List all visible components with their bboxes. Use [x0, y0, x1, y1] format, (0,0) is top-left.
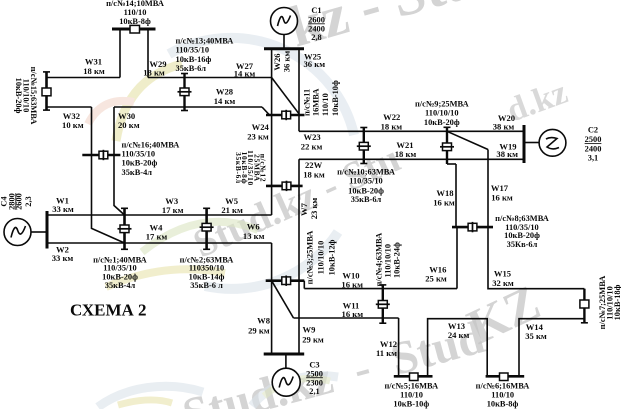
svg-text:36 км: 36 км	[304, 59, 326, 69]
svg-text:35кВ-6л: 35кВ-6л	[351, 195, 382, 204]
label W8	[248, 316, 271, 336]
transformer п/с№3	[282, 276, 291, 286]
transformer п/с№6	[500, 373, 509, 381]
label W22	[381, 112, 403, 131]
label W18	[433, 188, 455, 207]
svg-text:W8: W8	[257, 316, 271, 326]
watermark Stud.kz center	[186, 135, 406, 266]
svg-text:W9: W9	[303, 325, 316, 335]
text п/с№15 rotated	[14, 67, 38, 125]
svg-text:2400: 2400	[585, 145, 602, 154]
wire W13	[428, 319, 488, 377]
wire п/с№14 left drop	[119, 29, 121, 78]
svg-text:16 км: 16 км	[491, 193, 513, 203]
wire W18 vertical	[455, 164, 457, 227]
label W20	[493, 113, 515, 132]
label W12	[376, 339, 397, 358]
svg-text:10кВ-10ф: 10кВ-10ф	[331, 80, 340, 116]
bus C2	[523, 125, 526, 163]
label W32	[62, 111, 84, 130]
svg-text:18 км: 18 км	[381, 121, 403, 131]
bus п/с№10	[360, 128, 367, 164]
svg-text:35 км: 35 км	[525, 331, 547, 341]
text C4 rotated	[0, 193, 33, 210]
svg-text:23 км: 23 км	[247, 132, 269, 142]
svg-text:2500: 2500	[585, 135, 602, 144]
wire W23-W22-W20 rail	[299, 130, 525, 132]
svg-text:СХЕМА 2: СХЕМА 2	[70, 301, 147, 320]
svg-text:24 км: 24 км	[448, 330, 470, 340]
svg-text:10кВ-14ф: 10кВ-14ф	[189, 273, 225, 282]
svg-text:35Кв-6л: 35Кв-6л	[507, 240, 538, 249]
label W23	[301, 132, 323, 152]
svg-text:10кВ-8ф: 10кВ-8ф	[487, 400, 519, 409]
text п/с№2	[180, 255, 234, 290]
text п/с№4 rotated	[375, 233, 402, 287]
svg-text:W24: W24	[252, 122, 270, 132]
svg-text:11 км: 11 км	[376, 348, 397, 358]
bus п/с№8	[452, 226, 493, 229]
svg-text:п/с№5;16МВА: п/с№5;16МВА	[384, 381, 438, 390]
label W2	[52, 245, 74, 264]
logo swirl large	[88, 38, 354, 289]
wire W18 jog	[447, 163, 456, 165]
label W15	[492, 269, 514, 288]
text п/с№3 rotated	[306, 231, 337, 285]
title СХЕМА 2	[70, 301, 147, 320]
svg-text:10кВ-20ф: 10кВ-20ф	[122, 159, 158, 168]
label W24	[247, 122, 269, 142]
label W31	[83, 57, 105, 76]
svg-text:10кВ-8ф: 10кВ-8ф	[119, 17, 151, 26]
wire W30 drop + diagonal to п/с№1	[114, 107, 125, 215]
transformer п/с№5	[410, 373, 419, 381]
svg-text:36 км: 36 км	[282, 51, 292, 73]
svg-text:16 км: 16 км	[341, 279, 363, 289]
label W1	[52, 196, 74, 214]
label W21	[395, 140, 417, 159]
text п/с№16	[122, 140, 180, 177]
bus п/с№7	[581, 289, 588, 323]
wire W29-W27	[148, 77, 272, 79]
label W14	[525, 322, 547, 341]
svg-text:110/10: 110/10	[321, 93, 330, 116]
wire W16 vertical	[456, 227, 458, 289]
text п/с№10	[337, 168, 395, 204]
svg-text:35кВ-6 л: 35кВ-6 л	[190, 281, 223, 290]
label W28	[214, 87, 236, 107]
svg-text:10кВ-24ф: 10кВ-24ф	[393, 242, 402, 278]
text C1	[308, 6, 325, 42]
label W4	[146, 223, 168, 242]
svg-text:110/35/10: 110/35/10	[176, 46, 210, 55]
svg-text:п/с№4;63МВА: п/с№4;63МВА	[375, 233, 384, 287]
svg-text:2500: 2500	[306, 369, 323, 378]
label W13	[448, 321, 470, 340]
text п/с№6	[476, 381, 530, 408]
svg-text:п/с№3;25МВА: п/с№3;25МВА	[306, 231, 315, 285]
svg-text:W28: W28	[216, 87, 234, 97]
label W19	[496, 142, 518, 160]
transformer п/с№9	[440, 143, 454, 151]
label W5	[221, 196, 243, 215]
svg-text:10кВ-10ф: 10кВ-10ф	[393, 400, 429, 409]
svg-text:35кВ-4л: 35кВ-4л	[105, 281, 136, 290]
wire W25 vertical	[298, 49, 300, 132]
bus п/с№3	[266, 279, 305, 282]
svg-text:W26: W26	[272, 53, 282, 71]
wire п/с№3 diagonal to W11	[272, 281, 294, 318]
svg-text:п/с№11: п/с№11	[302, 89, 311, 116]
text п/с№5	[384, 381, 438, 408]
transformer п/с№1	[118, 225, 132, 233]
transformer п/с№15	[42, 88, 51, 96]
text п/с№1	[93, 255, 147, 290]
wire W12 vertical	[398, 318, 400, 376]
bus п/с№1	[121, 208, 128, 249]
svg-text:110/10/10: 110/10/10	[425, 109, 459, 118]
svg-text:2600: 2600	[14, 193, 23, 210]
bus п/с№11	[266, 114, 305, 117]
text C2	[585, 125, 602, 162]
svg-text:W23: W23	[304, 132, 321, 142]
svg-text:10кВ-20ф: 10кВ-20ф	[504, 231, 540, 240]
watermark Stud.kz bottom	[177, 311, 489, 409]
wire W8 vertical	[271, 243, 273, 354]
svg-text:п/с№16;40МВА: п/с№16;40МВА	[122, 140, 180, 149]
svg-text:20 км: 20 км	[118, 120, 140, 130]
wire W28 jog diagonal to п/с№11 bus	[262, 107, 270, 115]
svg-text:10кВ-20ф: 10кВ-20ф	[14, 78, 23, 114]
svg-text:2600: 2600	[308, 15, 325, 24]
generator C4	[4, 219, 47, 246]
text п/с№12 rotated	[234, 150, 268, 186]
wire W11	[294, 317, 399, 319]
svg-text:10кВ-16ф: 10кВ-16ф	[176, 55, 212, 64]
svg-text:110/10: 110/10	[400, 390, 423, 399]
svg-text:110/10: 110/10	[491, 390, 514, 399]
svg-text:п/с№10;63МВА: п/с№10;63МВА	[337, 168, 395, 177]
bus п/с№5	[394, 375, 433, 378]
transformer п/с№16	[99, 150, 108, 160]
transformer п/с№7	[580, 300, 589, 308]
svg-text:10кВ-20ф: 10кВ-20ф	[424, 118, 460, 127]
label W25	[304, 51, 326, 69]
wire W7-W9 vertical	[298, 159, 300, 354]
label W29	[143, 59, 166, 78]
svg-text:п/с№6;16МВА: п/с№6;16МВА	[476, 381, 530, 390]
svg-text:2,1: 2,1	[309, 387, 319, 396]
generator C3	[272, 354, 300, 396]
svg-text:29 км: 29 км	[302, 334, 324, 344]
svg-text:14 км: 14 км	[214, 96, 236, 106]
svg-text:13 км: 13 км	[243, 231, 265, 241]
label W10	[341, 270, 363, 289]
svg-text:14 км: 14 км	[234, 68, 256, 78]
label W27	[234, 61, 256, 78]
svg-text:29 км: 29 км	[248, 326, 270, 336]
svg-text:110/10/10: 110/10/10	[384, 244, 393, 278]
transformer п/с№4	[376, 301, 390, 309]
svg-text:21 км: 21 км	[221, 205, 243, 215]
wire п/с№9 diagonal to W17	[447, 131, 488, 149]
svg-text:18 км: 18 км	[395, 149, 417, 159]
wire W32	[47, 106, 92, 108]
svg-text:35кВ-4л: 35кВ-4л	[122, 168, 153, 177]
bus п/с№9	[444, 127, 451, 164]
wire п/с№14 right drop	[147, 29, 149, 78]
svg-text:23 км: 23 км	[309, 198, 319, 220]
svg-text:C2: C2	[588, 125, 598, 134]
svg-text:C1: C1	[311, 6, 321, 15]
svg-text:W17: W17	[491, 183, 509, 193]
text п/с№13	[176, 36, 234, 72]
svg-text:33 км: 33 км	[52, 253, 74, 263]
svg-text:16 км: 16 км	[342, 309, 364, 319]
text C3	[306, 360, 323, 396]
text п/с№9	[415, 100, 469, 128]
svg-text:17 км: 17 км	[146, 231, 168, 241]
svg-text:32 км: 32 км	[492, 278, 514, 288]
text п/с№8	[495, 214, 549, 249]
svg-text:25 км: 25 км	[425, 274, 447, 284]
svg-text:п/с№13;40МВА: п/с№13;40МВА	[176, 36, 234, 45]
wire W10-W16	[304, 288, 457, 290]
svg-text:16МВА: 16МВА	[312, 89, 321, 116]
svg-text:18 км: 18 км	[143, 68, 165, 78]
svg-text:п/с№8;63МВА: п/с№8;63МВА	[495, 214, 549, 223]
svg-text:10 км: 10 км	[62, 120, 84, 130]
bus п/с№12	[266, 185, 303, 188]
label W11	[342, 300, 364, 319]
label W6	[243, 222, 265, 241]
svg-text:18 км: 18 км	[83, 66, 105, 76]
svg-text:C3: C3	[309, 360, 319, 369]
label W17	[491, 183, 513, 203]
svg-text:22 км: 22 км	[301, 142, 323, 152]
wire W14 horizontal + vertical	[519, 319, 584, 377]
svg-text:10кВ-20ф: 10кВ-20ф	[102, 273, 138, 282]
bus п/с№14	[112, 28, 156, 31]
bus п/с№6	[486, 375, 525, 378]
svg-text:Stud.kz - Stud: Stud.kz - Stud	[177, 311, 489, 409]
text п/с№14	[106, 0, 164, 26]
svg-text:35кВ-6л: 35кВ-6л	[234, 152, 243, 184]
svg-text:3,1: 3,1	[588, 154, 598, 163]
transformer п/с№11	[282, 110, 291, 120]
transformer п/с№8	[468, 222, 477, 232]
svg-text:п/с№14;10МВА: п/с№14;10МВА	[106, 0, 164, 8]
svg-text:W7: W7	[299, 202, 309, 216]
label W9	[302, 325, 324, 345]
label W26 rotated	[272, 51, 292, 73]
svg-text:35кВ-6л: 35кВ-6л	[176, 64, 207, 73]
svg-text:18 км: 18 км	[303, 170, 325, 180]
wire W32 drop + diagonal to п/с№1	[92, 107, 125, 243]
label W7 rotated	[299, 198, 319, 220]
wire W26-W24 vertical	[271, 49, 273, 215]
watermark Stud.kz top-right	[282, 0, 483, 59]
label W30	[118, 111, 140, 130]
svg-text:110/10: 110/10	[124, 8, 147, 17]
wire W17 vertical	[487, 150, 489, 228]
transformer п/с№13	[178, 88, 192, 96]
svg-text:38 км: 38 км	[493, 122, 515, 132]
svg-text:110/10/10: 110/10/10	[317, 241, 326, 275]
svg-text:110/35/10: 110/35/10	[349, 177, 383, 186]
svg-text:110/35/10: 110/35/10	[103, 264, 137, 273]
svg-text:110/35/10: 110/35/10	[122, 150, 156, 159]
label W3	[162, 196, 184, 215]
wire п/с№3 bus right corner down	[303, 281, 305, 289]
svg-text:38 км: 38 км	[496, 149, 518, 159]
svg-text:10кВ-18ф: 10кВ-18ф	[613, 284, 621, 320]
label W16	[425, 264, 447, 283]
generator C1	[271, 8, 298, 49]
bus C1	[264, 47, 304, 50]
text п/с№11 rotated	[302, 80, 340, 116]
transformer п/с№14	[130, 25, 140, 33]
transformer п/с№10	[357, 142, 371, 150]
watermark d.kz right edge	[502, 74, 572, 130]
bus п/с№16	[82, 154, 120, 156]
svg-text:10кВ-12ф: 10кВ-12ф	[328, 239, 337, 275]
svg-text:п/с№9;25МВА: п/с№9;25МВА	[415, 100, 469, 109]
wire W5 rail (W1-W3-W5)	[47, 214, 272, 216]
transformer п/с№12	[282, 181, 291, 191]
bus п/с№2	[203, 208, 210, 249]
label 22W	[303, 160, 325, 179]
wire W31	[47, 77, 121, 79]
bus п/с№15	[43, 72, 50, 110]
svg-text:110350/10: 110350/10	[189, 264, 224, 273]
wire W15 vertical + horizontal	[488, 227, 584, 289]
transformer п/с№2	[200, 223, 214, 231]
bus C4	[46, 211, 49, 249]
wire 22W-W21-W19 rail	[299, 158, 525, 160]
svg-text:17 км: 17 км	[162, 205, 184, 215]
svg-text:2,8: 2,8	[311, 33, 321, 42]
logo swirl bottom	[98, 376, 338, 407]
watermark KZ bottom-right	[459, 274, 548, 355]
bus C3	[264, 353, 305, 356]
svg-text:33 км: 33 км	[52, 204, 74, 214]
wire diagonal W27 junction to п/с№11 right	[272, 78, 299, 114]
text п/с№7 rotated	[598, 276, 621, 330]
wire W6 rail (W2-W4-W6)	[47, 242, 272, 244]
generator C2	[524, 129, 566, 156]
bus п/с№4	[379, 285, 386, 323]
svg-text:2,3: 2,3	[24, 196, 33, 206]
bus п/с№13	[181, 74, 188, 111]
svg-text:16 км: 16 км	[433, 198, 455, 208]
wire W28	[114, 106, 262, 108]
